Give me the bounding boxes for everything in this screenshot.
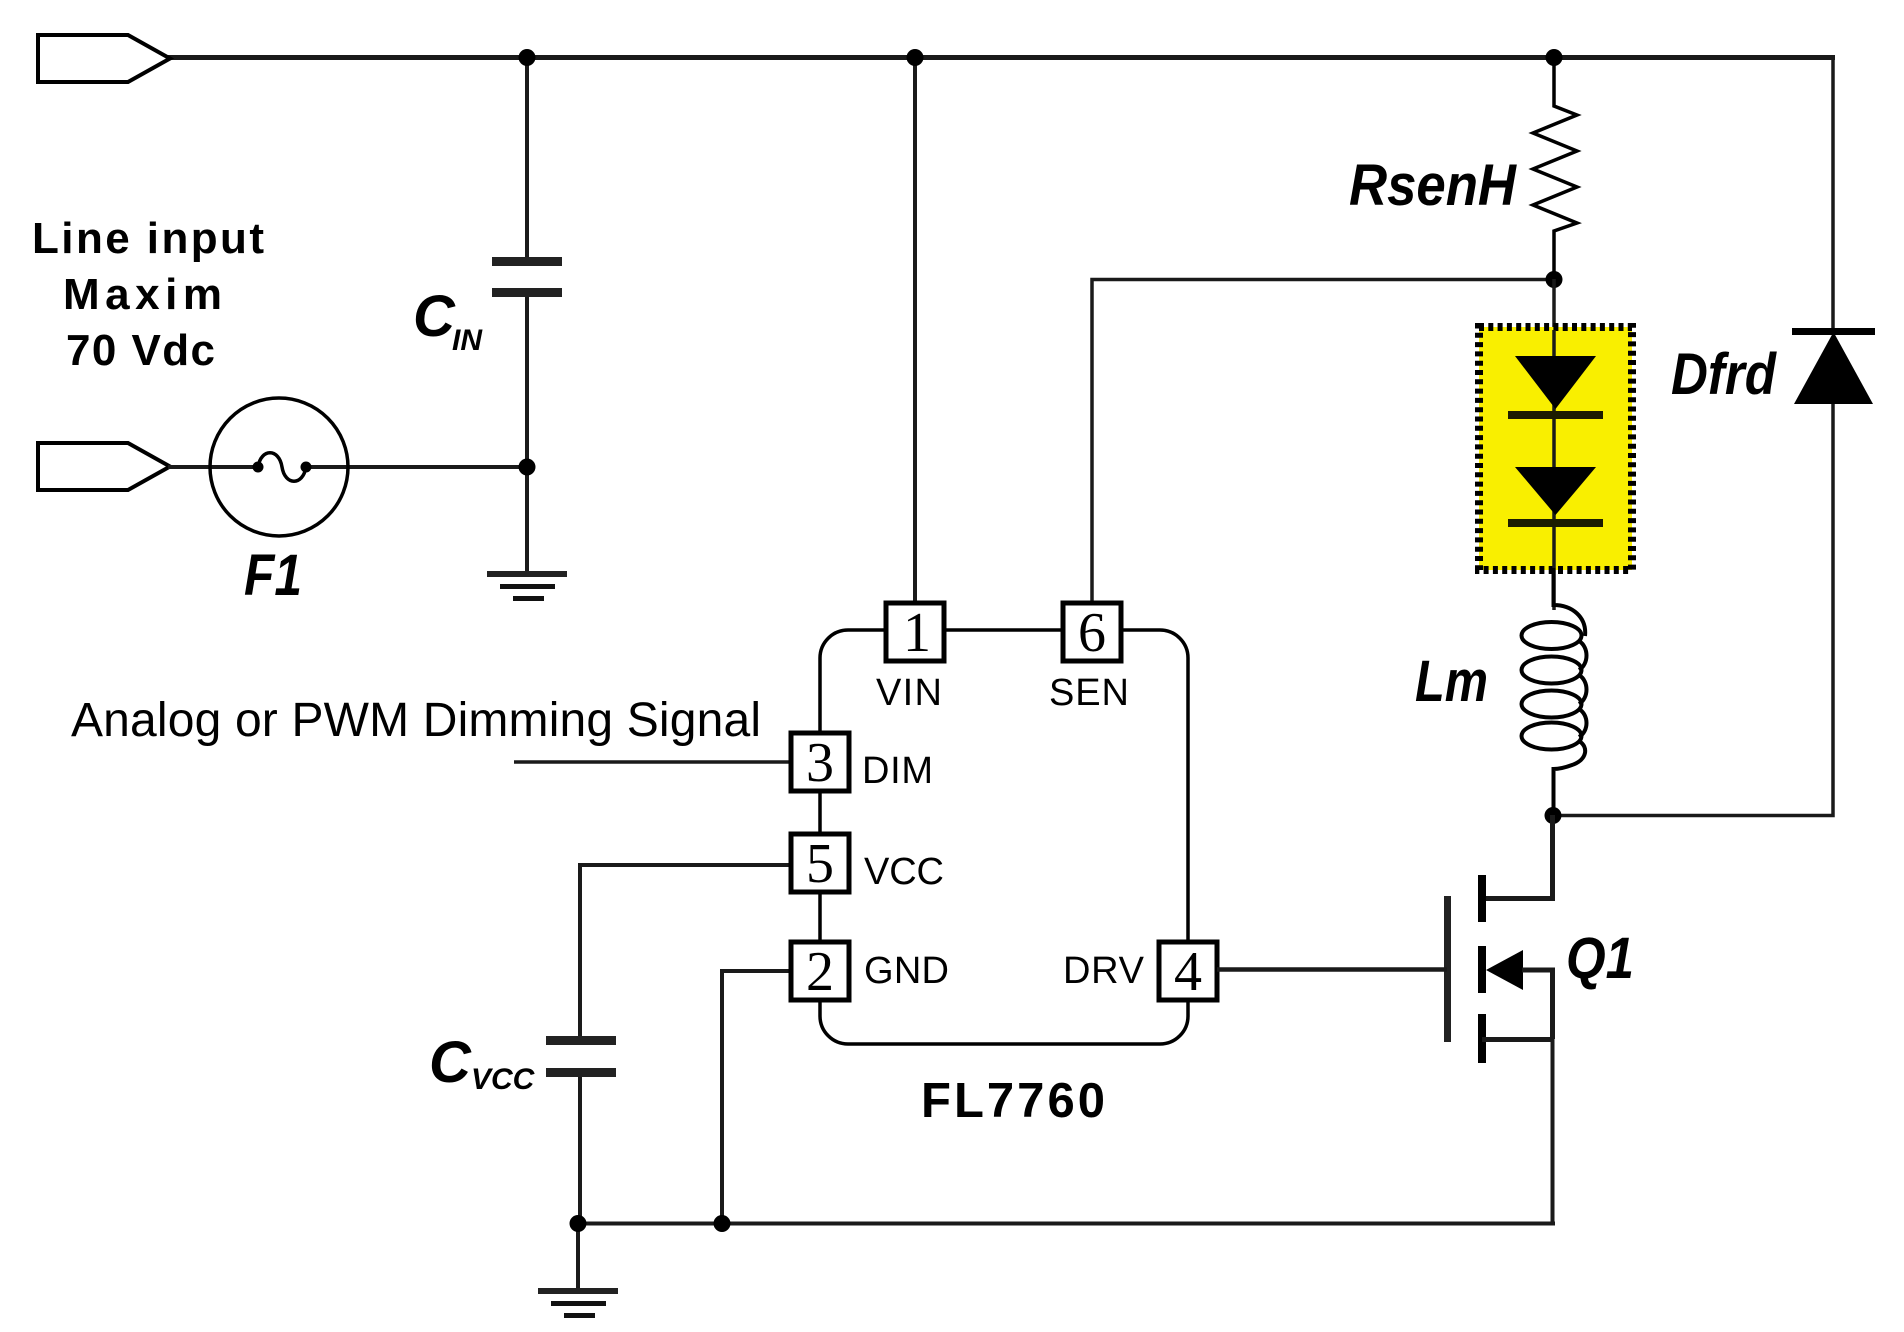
svg-text:VIN: VIN bbox=[876, 672, 943, 714]
capacitor CIN bbox=[492, 257, 562, 266]
node junction bottom rail / ground bbox=[570, 1215, 587, 1232]
transistor Q1 channel bars bbox=[1478, 875, 1486, 922]
wire DIM signal bbox=[514, 760, 792, 764]
pin 6 box bbox=[1063, 603, 1121, 661]
capacitor CVCC bbox=[546, 1036, 616, 1045]
wire right branch bottom bbox=[1553, 404, 1833, 816]
node junction RsenH / SEN bbox=[1546, 271, 1563, 288]
svg-text:Maxim: Maxim bbox=[63, 270, 222, 319]
transistor Q1 gate bar bbox=[1444, 896, 1451, 1042]
wire right branch top bbox=[1831, 55, 1835, 332]
pin 4 box bbox=[1159, 942, 1217, 1000]
svg-text:Q1: Q1 bbox=[1566, 926, 1634, 991]
terminal input top bbox=[38, 35, 170, 82]
wire CIN vertical bottom bbox=[525, 297, 529, 572]
pin 5 box bbox=[791, 834, 849, 892]
wire VCC bbox=[580, 865, 792, 1037]
svg-text:FL7760: FL7760 bbox=[921, 1074, 1105, 1128]
wire drain bbox=[1482, 815, 1553, 899]
wire CVCC to bottom rail bbox=[578, 1077, 582, 1224]
node junction top rail / VIN bbox=[907, 49, 924, 66]
wire CIN vertical top bbox=[525, 57, 529, 258]
ground under CIN bbox=[487, 571, 567, 577]
svg-text:70 Vdc: 70 Vdc bbox=[66, 326, 215, 375]
wire through LED block bbox=[1552, 330, 1556, 610]
node junction bottom rail / GND wire bbox=[714, 1215, 731, 1232]
wire SEN vertical and horizontal bbox=[1092, 280, 1554, 605]
node junction top rail / CIN bbox=[519, 49, 536, 66]
svg-text:Line input: Line input bbox=[32, 214, 264, 263]
diode D1 in LED block bbox=[1515, 356, 1596, 409]
svg-text:VCC: VCC bbox=[471, 1063, 536, 1096]
resistor RsenH bbox=[1533, 60, 1577, 279]
svg-text:3: 3 bbox=[806, 732, 834, 794]
fuse F1 sine element bbox=[258, 453, 306, 482]
wire top rail bbox=[168, 55, 1835, 60]
svg-text:Lm: Lm bbox=[1415, 649, 1488, 714]
pin 2 box bbox=[791, 942, 849, 1000]
svg-text:DRV: DRV bbox=[1063, 950, 1145, 992]
wire bottom rail bbox=[578, 1222, 1555, 1226]
svg-text:GND: GND bbox=[864, 950, 950, 992]
node junction Lm / Dfrd branch bbox=[1545, 807, 1562, 824]
svg-text:Dfrd: Dfrd bbox=[1671, 342, 1777, 407]
wire lower input to fuse bbox=[168, 465, 258, 469]
diode Dfrd bbox=[1792, 328, 1875, 335]
LED block (yellow) bbox=[1479, 327, 1632, 570]
fuse F1 circle bbox=[210, 398, 348, 536]
svg-text:VCC: VCC bbox=[864, 851, 945, 893]
svg-text:DIM: DIM bbox=[862, 750, 934, 792]
pin 3 box bbox=[791, 733, 849, 791]
svg-text:Analog or PWM Dimming Signal: Analog or PWM Dimming Signal bbox=[71, 694, 761, 747]
wire DRV bbox=[1217, 967, 1447, 972]
pin 1 box bbox=[886, 603, 944, 661]
svg-text:5: 5 bbox=[806, 833, 834, 895]
inductor Lm bbox=[1554, 568, 1586, 636]
diode D2 in LED block bbox=[1515, 467, 1596, 515]
svg-text:6: 6 bbox=[1078, 602, 1106, 664]
svg-text:F1: F1 bbox=[244, 543, 302, 608]
wire source to bottom rail bbox=[1551, 1039, 1555, 1224]
op-amp U1 FL7760 body bbox=[820, 630, 1188, 1044]
svg-text:SEN: SEN bbox=[1049, 672, 1130, 714]
wire body to source bbox=[1522, 970, 1553, 1039]
wire ground stub bbox=[576, 1224, 580, 1290]
wire VIN vertical bbox=[913, 57, 917, 604]
node junction F1 / CIN bbox=[519, 459, 536, 476]
svg-text:C: C bbox=[413, 284, 456, 349]
wire fuse to node CIN bbox=[306, 465, 529, 469]
wire RsenH to LED block bbox=[1552, 279, 1556, 330]
svg-text:1: 1 bbox=[903, 602, 931, 664]
transistor Q1 body arrow bbox=[1486, 950, 1523, 990]
ground bottom bbox=[538, 1288, 618, 1294]
svg-text:4: 4 bbox=[1174, 941, 1202, 1003]
terminal input bottom bbox=[38, 443, 170, 490]
svg-text:2: 2 bbox=[806, 941, 834, 1003]
svg-text:RsenH: RsenH bbox=[1349, 153, 1517, 218]
svg-text:C: C bbox=[429, 1030, 472, 1095]
label Line input Maxim 70 Vdc bbox=[32, 214, 264, 375]
wire GND pin to bottom rail bbox=[722, 971, 792, 1224]
node junction top rail / RsenH bbox=[1546, 49, 1563, 66]
svg-text:IN: IN bbox=[452, 324, 483, 357]
wire source bar bbox=[1482, 1037, 1553, 1042]
